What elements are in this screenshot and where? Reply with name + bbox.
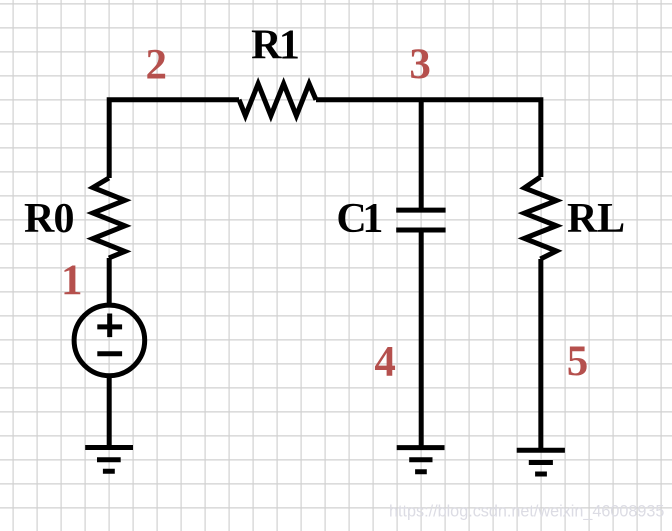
capacitor C1 top plate [396,208,445,213]
svg-text:3: 3 [409,41,431,88]
wire RL bottom to right ground (node 5) [538,259,543,450]
voltage source minus sign [97,351,122,356]
wire C1 bottom plate to middle ground (node 4) [419,232,424,448]
ground symbol left [85,448,133,472]
svg-text:R1: R1 [251,23,298,69]
svg-text:1: 1 [61,257,83,304]
svg-text:5: 5 [567,338,589,385]
ground symbol right [517,450,565,474]
svg-text:2: 2 [146,41,168,88]
wire node 3 to C1 top plate [419,100,424,208]
wire net node 3: horizontal from R1 through junction to top-right corner, down to RL [316,100,541,177]
voltage source plus sign [97,314,122,338]
svg-text:C1: C1 [336,196,381,242]
wire net node 2: left vertical + top horizontal to R1 [109,100,239,178]
svg-text:RL: RL [567,196,625,242]
resistor R0 [93,178,125,258]
svg-text:R0: R0 [24,196,74,242]
voltage source V1 circle [74,305,145,376]
resistor R1 [239,84,316,116]
svg-text:4: 4 [374,339,396,386]
ground symbol middle [397,448,445,472]
wire R0 bottom to voltage source top (node 1) [107,258,112,306]
svg-text:https://blog.csdn.net/weixin_4: https://blog.csdn.net/weixin_46008935 [389,503,664,521]
capacitor C1 bottom plate [396,228,445,233]
resistor RL [524,177,556,259]
wire voltage source bottom to left ground [107,377,112,448]
